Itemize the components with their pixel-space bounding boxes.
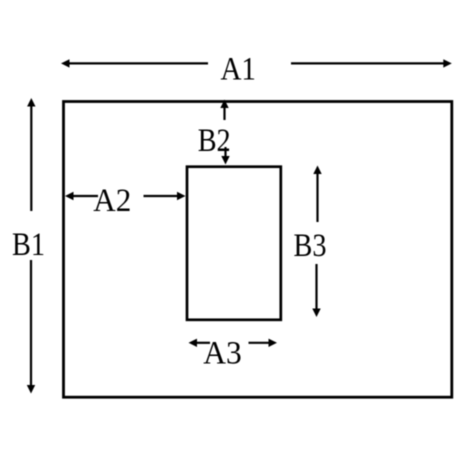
svg-text:A1: A1 xyxy=(220,51,256,87)
dimension B3 down arrow xyxy=(312,264,320,317)
dimension B1 arrow top segment xyxy=(27,98,35,211)
dimension A2 left arrow xyxy=(65,192,98,200)
svg-text:B1: B1 xyxy=(12,227,45,263)
svg-text:B3: B3 xyxy=(294,228,327,264)
dimension A2 right arrow xyxy=(144,192,186,200)
dimension A1 arrow right segment xyxy=(291,59,452,67)
outer rectangle (plate outline) xyxy=(64,102,452,398)
svg-text:A3: A3 xyxy=(203,335,242,371)
dimension B3 up arrow xyxy=(313,166,321,223)
inner rectangle (cutout) xyxy=(187,167,281,320)
dimension A1 arrow left segment xyxy=(61,59,208,67)
dimension B1 arrow bottom segment xyxy=(27,260,35,394)
dimension B2 down arrow xyxy=(221,147,229,165)
dimension B2 up arrow xyxy=(220,100,228,121)
dimension A3 right arrow xyxy=(249,339,278,347)
dimension A3 left arrow xyxy=(189,339,211,347)
svg-text:A2: A2 xyxy=(93,183,131,219)
